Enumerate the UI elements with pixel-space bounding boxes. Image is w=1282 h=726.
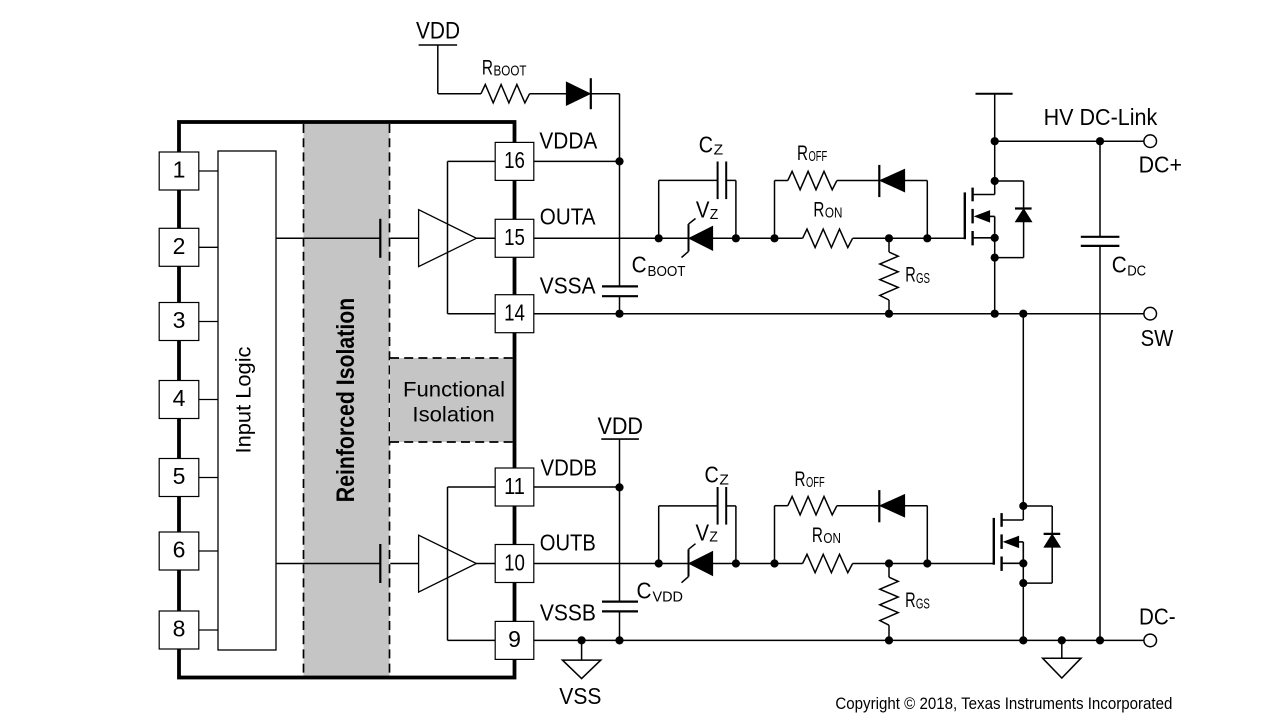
- svg-text:Reinforced Isolation: Reinforced Isolation: [332, 298, 360, 503]
- svg-text:Functional: Functional: [403, 378, 505, 402]
- svg-text:Z: Z: [719, 473, 729, 489]
- node ground stub left: [578, 636, 586, 644]
- reinforced isolation band: [304, 122, 390, 678]
- svg-text:SW: SW: [1141, 325, 1174, 351]
- node RGS B top: [885, 559, 893, 567]
- wire OUTA from pin 15: [534, 237, 659, 239]
- pin 6: [159, 532, 218, 570]
- driver buffer A: [419, 210, 477, 267]
- pin 1: [159, 152, 218, 190]
- VDD supply terminal (top): [416, 18, 460, 94]
- node RGS B bottom: [885, 636, 893, 644]
- svg-text:Z: Z: [710, 207, 719, 223]
- wire SW bus down: [1022, 314, 1024, 520]
- resistor RGS B: [880, 564, 898, 641]
- node Q1 source: [991, 234, 999, 242]
- wire driver A to pin 15: [476, 237, 495, 239]
- wire pin11 VDDB: [534, 486, 620, 488]
- node Q2 source on DC-: [1019, 636, 1027, 644]
- svg-text:VDD: VDD: [653, 590, 684, 606]
- resistor RON A: [803, 229, 965, 247]
- svg-text:Input Logic: Input Logic: [233, 347, 256, 454]
- wire VDDA to CBOOT: [619, 161, 621, 286]
- node Q2 drain-diode: [1019, 502, 1027, 510]
- terminal SW: [1144, 307, 1157, 320]
- pin 4: [159, 381, 218, 419]
- node SW bus top: [1019, 310, 1027, 318]
- svg-text:BOOT: BOOT: [494, 63, 527, 79]
- svg-text:BOOT: BOOT: [648, 264, 686, 280]
- svg-text:VDDB: VDDB: [541, 454, 598, 480]
- svg-text:HV DC-Link: HV DC-Link: [1044, 104, 1158, 130]
- svg-text:6: 6: [173, 537, 186, 563]
- pin 3: [159, 303, 218, 341]
- svg-text:Isolation: Isolation: [412, 402, 494, 426]
- svg-text:4: 4: [173, 385, 186, 411]
- wire pin16 VDDA: [534, 160, 620, 162]
- svg-text:VSSB: VSSB: [540, 600, 596, 626]
- body diode Q1: [995, 181, 1032, 258]
- svg-text:DC: DC: [1127, 263, 1146, 279]
- node HV junction: [991, 137, 999, 145]
- node CDC bottom: [1096, 636, 1104, 644]
- svg-text:R: R: [905, 263, 916, 287]
- driver A rail wires: [448, 161, 496, 313]
- node zener A left: [655, 234, 663, 242]
- resistor RBOOT: [481, 55, 530, 103]
- label RGS B: [905, 588, 930, 612]
- svg-text:15: 15: [504, 224, 525, 250]
- svg-text:C: C: [637, 578, 652, 604]
- node CBOOT-VSSA: [615, 310, 623, 318]
- svg-text:11: 11: [504, 473, 525, 499]
- ground symbol VSS: [562, 640, 600, 678]
- label ROFF A: [797, 141, 827, 165]
- wire isolation to driver B: [390, 563, 418, 565]
- svg-text:R: R: [905, 588, 916, 612]
- node ROFF B left: [770, 559, 778, 567]
- svg-text:8: 8: [173, 616, 186, 642]
- svg-text:ON: ON: [823, 531, 841, 547]
- node Q2 diode return: [1019, 579, 1027, 587]
- wire RBOOT to bootstrap diode: [530, 93, 567, 95]
- node VDDB junction: [615, 483, 623, 491]
- pin 5: [159, 459, 218, 497]
- wire to ROFF node A: [736, 237, 803, 239]
- zener diode VZ B: [659, 544, 736, 583]
- zener diode VZ A: [659, 219, 736, 258]
- wire driver B to pin 10: [476, 563, 495, 565]
- svg-text:R: R: [482, 55, 493, 79]
- isolation capacitor channel B: [379, 544, 381, 583]
- anti-parallel diode B: [879, 490, 927, 563]
- svg-text:V: V: [696, 519, 710, 545]
- svg-text:VSSA: VSSA: [540, 273, 596, 299]
- IC package outline: [179, 122, 515, 678]
- svg-text:5: 5: [173, 463, 186, 489]
- wire VDDB to CVDD: [619, 487, 621, 601]
- pin 16: [495, 142, 534, 180]
- svg-text:C: C: [705, 462, 719, 488]
- HV supply bar: [976, 94, 1013, 142]
- label RON A: [813, 198, 842, 222]
- node Q1 drain-diode: [991, 177, 999, 185]
- node CVDD-VSSB: [615, 636, 623, 644]
- wire CBOOT to VSSA: [619, 296, 621, 314]
- node CDC top: [1096, 137, 1104, 145]
- node Q2 source: [1019, 559, 1027, 567]
- wire input logic to channel B isolation: [276, 563, 380, 565]
- capacitor CDC: [1081, 141, 1120, 640]
- svg-text:OUTA: OUTA: [540, 204, 596, 230]
- input logic block: [218, 151, 276, 650]
- svg-text:ON: ON: [825, 206, 843, 222]
- svg-text:Z: Z: [714, 143, 724, 159]
- svg-text:OFF: OFF: [806, 475, 825, 491]
- svg-text:Copyright © 2018, Texas Instru: Copyright © 2018, Texas Instruments Inco…: [835, 694, 1172, 713]
- pin 15: [495, 219, 534, 257]
- label VZ A: [696, 197, 719, 223]
- node Q1 source on SW: [991, 310, 999, 318]
- svg-text:R: R: [813, 198, 824, 222]
- node VDDA junction: [615, 157, 623, 165]
- anti-parallel diode A: [879, 165, 927, 238]
- wire VDD to RBOOT: [438, 93, 481, 95]
- pin 10: [495, 545, 534, 583]
- MOSFET Q1 high-side: [965, 141, 995, 314]
- svg-text:Z: Z: [709, 530, 718, 546]
- wire diode to VDDA node: [591, 94, 620, 162]
- svg-text:C: C: [632, 252, 647, 278]
- svg-text:14: 14: [504, 300, 525, 326]
- MOSFET Q2 low-side: [994, 513, 1024, 640]
- pin 11: [495, 468, 534, 506]
- svg-text:VSS: VSS: [559, 683, 601, 709]
- resistor RGS A: [880, 238, 898, 313]
- svg-text:VDDA: VDDA: [539, 127, 597, 153]
- capacitor CZ B branch: [659, 487, 736, 564]
- node ground stub right: [1058, 636, 1066, 644]
- pin 8: [159, 611, 218, 649]
- label RGS A: [905, 263, 930, 287]
- node zener A right: [732, 234, 740, 242]
- driver B rail wires: [448, 487, 496, 640]
- node Q1 diode return: [991, 254, 999, 262]
- label RON B: [812, 523, 841, 547]
- svg-text:DC-: DC-: [1139, 604, 1176, 630]
- terminal DC-: [1144, 634, 1157, 647]
- wire to ROFF node B: [736, 563, 803, 565]
- wire VSSA / SW rail: [534, 313, 1144, 315]
- label VZ B: [696, 519, 719, 545]
- svg-text:GS: GS: [916, 597, 930, 613]
- svg-text:3: 3: [173, 307, 186, 333]
- svg-text:VDD: VDD: [598, 413, 644, 440]
- capacitor CBOOT: [602, 252, 686, 297]
- VDD supply terminal (lower): [598, 413, 644, 488]
- label CDC: [1112, 251, 1147, 279]
- node ROFF A left: [770, 234, 778, 242]
- node RGS A top: [885, 234, 893, 242]
- label CZ A: [699, 132, 724, 159]
- svg-text:V: V: [696, 197, 710, 223]
- node diode branch B right: [923, 559, 931, 567]
- svg-text:10: 10: [504, 549, 525, 575]
- wire input logic to channel A isolation: [276, 237, 380, 239]
- svg-text:R: R: [795, 467, 806, 491]
- pin 2: [159, 228, 218, 266]
- ground symbol right: [1043, 640, 1081, 678]
- resistor ROFF A branch: [775, 171, 880, 238]
- pin 14: [495, 295, 534, 333]
- svg-text:R: R: [797, 141, 808, 165]
- svg-text:R: R: [812, 523, 823, 547]
- svg-text:9: 9: [508, 626, 521, 652]
- svg-text:1: 1: [173, 157, 186, 183]
- capacitor CZ A branch: [659, 162, 736, 239]
- svg-text:DC+: DC+: [1139, 151, 1182, 177]
- pin 9: [495, 621, 534, 659]
- capacitor CVDD: [602, 578, 683, 612]
- label ROFF B: [795, 467, 825, 491]
- wire VSSB / DC- rail: [534, 639, 1144, 641]
- svg-text:2: 2: [173, 233, 186, 259]
- svg-text:VDD: VDD: [416, 18, 460, 45]
- svg-text:16: 16: [504, 147, 525, 173]
- label CZ B: [705, 462, 730, 489]
- node zener B right: [732, 559, 740, 567]
- svg-text:C: C: [699, 132, 713, 158]
- svg-text:C: C: [1112, 251, 1127, 277]
- terminal DC+: [1144, 135, 1157, 148]
- wire HV DC-Link: [995, 140, 1144, 142]
- body diode Q2: [1023, 506, 1060, 583]
- svg-text:OFF: OFF: [809, 149, 828, 165]
- node zener B left: [655, 559, 663, 567]
- resistor ROFF B branch: [775, 497, 880, 564]
- functional isolation block: [390, 358, 515, 442]
- wire OUTB from pin 10: [534, 563, 659, 565]
- svg-text:GS: GS: [916, 271, 930, 287]
- wire isolation to driver A: [390, 237, 418, 239]
- node RGS A bottom: [885, 310, 893, 318]
- driver buffer B: [419, 535, 477, 592]
- wire CVDD to VSSB: [619, 611, 621, 640]
- resistor RON B: [803, 554, 994, 572]
- bootstrap diode: [566, 78, 590, 109]
- node diode branch A right: [923, 234, 931, 242]
- isolation capacitor channel A: [379, 219, 381, 258]
- svg-text:OUTB: OUTB: [540, 530, 596, 556]
